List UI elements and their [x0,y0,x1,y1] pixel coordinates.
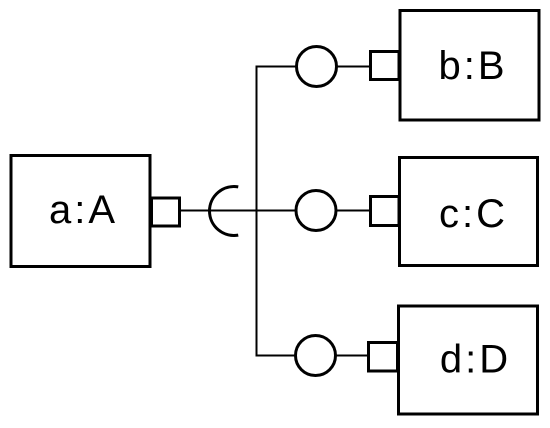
port square on d:D [369,343,398,372]
ball (provided interface) on c:C branch [296,191,336,231]
ball (provided interface) on d:D branch [296,336,336,376]
svg-text:a:A: a:A [49,188,118,232]
wire: top branch to b:B port [257,66,371,68]
port square on a:A [152,198,180,226]
svg-text:c:C: c:C [439,192,508,236]
svg-text:b:B: b:B [438,44,507,88]
component box a:A [11,156,150,267]
port square on c:C [371,197,400,226]
svg-text:d:D: d:D [440,338,511,382]
ball (provided interface) on b:B branch [297,47,337,87]
wire: middle horizontal from a:A port through socket and trunk to c:C port [180,210,370,212]
socket (required interface half-circle) on a:A line [210,187,239,236]
wire: vertical trunk [256,66,258,357]
component box c:C [400,158,538,266]
component box b:B [400,11,539,121]
component box d:D [399,306,538,414]
wire: bottom branch to d:D port [257,355,369,357]
port square on b:B [371,52,400,80]
